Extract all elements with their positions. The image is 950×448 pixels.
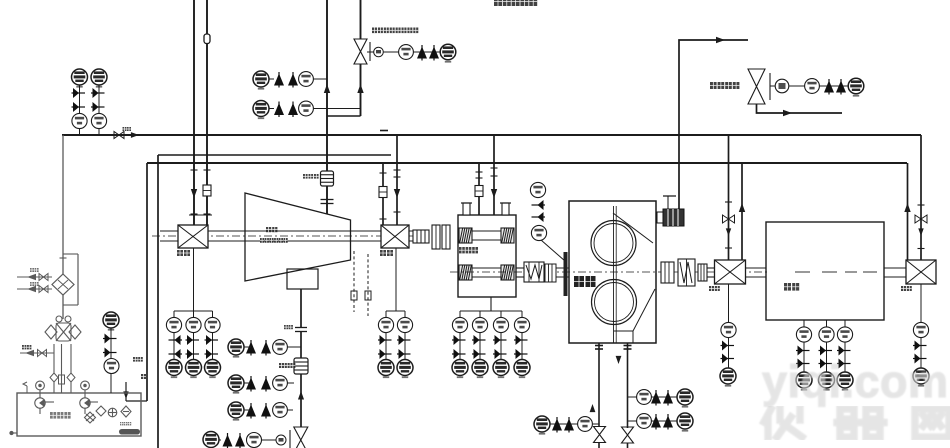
signal line fc row1 xyxy=(628,396,679,398)
coupling fluidcoupling-motor A xyxy=(661,262,674,283)
alarm flag drain lo xyxy=(564,417,574,433)
alarm flag bottom a xyxy=(223,433,233,448)
signal line 0403 PE xyxy=(79,85,81,135)
flow arrow up riser x327 xyxy=(324,84,330,93)
fan vent line upper xyxy=(300,289,302,327)
row connect to drain A xyxy=(592,423,599,425)
instrument 0107 TNT xyxy=(228,339,244,358)
signal line 0402 xyxy=(920,284,922,368)
fluid coupling bevel bottom xyxy=(633,289,655,331)
feed line fan-DE group xyxy=(193,248,195,311)
flow arrow up motor-R drop xyxy=(904,203,910,212)
pipe riser x194 xyxy=(193,0,195,225)
pipe cooler to filter xyxy=(62,295,64,319)
flow arrow down gearbox drop B xyxy=(491,189,497,198)
shaft to motor bearing lower xyxy=(707,276,715,278)
tick mark xyxy=(394,211,401,213)
blow-off valve stem xyxy=(289,430,291,448)
alarm flag fc1 lo xyxy=(663,390,673,406)
label 稀油站 xyxy=(50,412,71,419)
instrument 0303 TE xyxy=(637,414,652,429)
alarm flag 0401 lo xyxy=(721,354,735,364)
flow arrow down drain B xyxy=(616,356,622,364)
tick on riser x207 xyxy=(204,169,211,171)
tick mark xyxy=(204,213,211,215)
signal line 0403 TE xyxy=(803,320,805,372)
instrument 0405 TE xyxy=(837,327,852,342)
alarm flag 0104 VE hi xyxy=(205,335,219,345)
signal line 0405 TE xyxy=(844,320,846,372)
alarm flag probe hi xyxy=(532,200,546,210)
alarm flag 0403 TE lo xyxy=(796,359,810,369)
alarm flag drain hi xyxy=(552,417,562,433)
label XXXXM3 xyxy=(260,238,288,243)
row 0107 link xyxy=(269,78,274,80)
alarm flag 0404 TE hi xyxy=(819,346,833,356)
alarm flag 0101 TE hi xyxy=(378,335,392,345)
alarm flag 0203 TE hi xyxy=(493,335,507,345)
tick mark xyxy=(491,175,498,177)
instrument 0403 TE xyxy=(796,327,811,342)
instrument 0203 TE AST xyxy=(493,360,509,379)
alarm flag 0406 a xyxy=(103,334,117,344)
gearbox 增速机 xyxy=(458,215,516,297)
alarm flag 0101 TE lo xyxy=(378,349,392,359)
instrument 0404 TE xyxy=(819,327,834,342)
cooler bypass top xyxy=(63,253,78,255)
return oil into tank xyxy=(126,400,147,402)
motor shaft R lower xyxy=(884,276,907,278)
signal line 0202 TE xyxy=(479,311,481,360)
alarm flag 0404 PAST b xyxy=(72,102,86,112)
label 回油 on H1 xyxy=(123,127,132,131)
alarm flag 0404 TE lo xyxy=(819,359,833,369)
instrument 0110 PNT xyxy=(228,375,244,394)
instrument 0304 ZNT xyxy=(848,78,864,96)
fan shaft lower line xyxy=(160,240,413,242)
tick above H1 xyxy=(380,130,388,132)
label 液偶 xyxy=(574,276,596,287)
row1 link xyxy=(244,346,251,348)
cooling water line A xyxy=(17,276,52,278)
alarm flag 0305 lo xyxy=(836,79,846,95)
alarm flag row2 b xyxy=(261,376,271,392)
label 排油 xyxy=(22,345,31,349)
output shaft seg upper xyxy=(516,267,524,269)
instrument 0101 TE AST xyxy=(378,360,394,379)
flow arrow right scoop outlet xyxy=(783,110,792,116)
arrow drain oil xyxy=(25,350,34,356)
tick mark xyxy=(380,218,387,220)
alarm flag 0108 a xyxy=(274,102,284,118)
instrument 0204 TE AST xyxy=(514,360,530,379)
cooling water line B xyxy=(17,288,52,290)
label 回 at tank xyxy=(141,374,146,379)
tick mark xyxy=(476,171,483,173)
arrow return oil xyxy=(123,391,128,399)
instrument 0302 XE xyxy=(531,225,546,240)
signal line M to ZE xyxy=(789,85,805,87)
feed line fan-NDE group xyxy=(395,248,397,311)
flow arrow right scoop line xyxy=(716,37,725,43)
label 液偶勺管 xyxy=(710,82,739,89)
label 风机 xyxy=(266,227,277,232)
signal row2 connect xyxy=(287,382,294,384)
orifice gearbox drop A xyxy=(475,186,483,197)
tick mark xyxy=(595,345,603,347)
alarm flag 0201 TE hi xyxy=(452,335,466,345)
valve on cooling water A xyxy=(39,274,48,281)
scoop tube actuator motor xyxy=(657,196,684,226)
tick mark xyxy=(624,348,632,350)
alarm flag 0202 TE hi xyxy=(472,335,486,345)
alarm flag row3 a xyxy=(246,403,256,419)
signal row1 connect xyxy=(287,346,301,348)
tick on riser x194 xyxy=(191,169,198,171)
label 轴承 fan NDE xyxy=(380,250,393,256)
scoop tube valve 液偶勺管 xyxy=(748,69,765,104)
orifice fan bearing drop xyxy=(379,187,387,198)
flow arrow up vent line xyxy=(298,391,304,400)
duplex oil filter xyxy=(45,316,81,341)
alarm flag fc1 hi xyxy=(651,390,661,406)
gearbox top stub A xyxy=(461,203,472,215)
coupling fluidcoupling-motor B xyxy=(678,259,695,286)
anti-surge valve stem bar xyxy=(369,42,371,61)
alarm flag 0203 TE lo xyxy=(493,349,507,359)
instrument M actuator xyxy=(775,79,789,93)
signal line 0404 TE xyxy=(826,320,828,372)
instrument 0204 TE xyxy=(514,317,529,332)
gearbox output journal R xyxy=(501,265,514,280)
scoop valve stem bar xyxy=(769,73,771,100)
signal line 0203 TE xyxy=(500,311,502,360)
label 轴承 fan DE xyxy=(177,250,190,256)
accumulator 蓄能器 xyxy=(294,358,308,374)
coupling guard xyxy=(432,225,450,249)
instrument 0103 LE AST xyxy=(166,360,182,379)
alarm flag 0102 TE lo xyxy=(186,349,200,359)
instrument 0402 TAC xyxy=(91,69,107,88)
tie line between risers xyxy=(189,214,212,216)
gearbox top stub B xyxy=(500,203,511,215)
title 鼓风机系统 xyxy=(494,0,537,6)
valve on motor-L drop xyxy=(723,215,735,223)
label heater xyxy=(120,422,131,425)
row 0108 link xyxy=(269,108,274,110)
instrument E actuator xyxy=(276,435,286,445)
coupling fluidcoupling-motor C xyxy=(698,264,707,281)
alarm flag 0204 TE hi xyxy=(514,335,528,345)
output shaft centerline xyxy=(450,271,770,273)
label muffler 消音器 xyxy=(303,174,319,179)
alarm flag row1 b xyxy=(261,340,271,356)
shaft to fluid coupling lower xyxy=(544,276,569,278)
oil drop motor bearing L B xyxy=(741,163,743,260)
oil heater capsule xyxy=(119,429,140,435)
signal line ZE row xyxy=(819,85,848,87)
branch line fan-DE group xyxy=(174,310,213,312)
drain valve A xyxy=(594,427,606,443)
alarm flag 0403 TE hi xyxy=(796,346,810,356)
tank top-left vent flag xyxy=(23,382,27,393)
oil drop to gearbox A xyxy=(478,163,480,215)
signal line bottom row xyxy=(262,439,276,441)
alarm flag 0305 hi xyxy=(824,79,834,95)
riser x327 lower xyxy=(326,186,328,214)
motor shaft L upper xyxy=(746,267,766,269)
alarm flag row2 a xyxy=(246,376,256,392)
alarm flag 0402 hi xyxy=(913,341,927,351)
flow arrow right on H1 xyxy=(131,132,139,138)
alarm flag 0402 TAC a xyxy=(91,88,105,98)
alarm flag 0204 TE lo xyxy=(514,349,528,359)
jog joining risers xyxy=(327,115,361,117)
label 蓄能器 xyxy=(279,363,295,368)
alarm flag 0404 PAST a xyxy=(72,88,86,98)
signal line 0104 VE xyxy=(212,311,214,360)
gearbox output shaft upper xyxy=(472,267,501,269)
alarm flag 0101 VE hi xyxy=(397,335,411,345)
fan casing 风机 xyxy=(245,193,351,281)
bottom row link xyxy=(219,439,221,441)
gearbox input journal R xyxy=(501,228,514,243)
oil station tank 稀油站 xyxy=(17,393,141,436)
instrument 0202 TE xyxy=(472,317,487,332)
motor centerline dash 2 xyxy=(822,271,837,273)
label S4 B xyxy=(30,282,39,286)
alarm flag fc2 lo xyxy=(663,414,673,430)
instrument 0104 VE AST xyxy=(205,360,221,379)
instrument 0403 TE AST xyxy=(796,372,812,391)
instrument 0405 TE AST xyxy=(837,372,853,391)
oil cooler diamond xyxy=(52,274,74,295)
coupling spacer gearbox side xyxy=(545,264,556,282)
alarm flag 0103 LE hi xyxy=(169,335,183,345)
instrument IE xyxy=(374,47,384,57)
fluid coupling runner upper xyxy=(591,221,636,266)
instrument 0307 TE xyxy=(578,417,593,432)
instrument 0102 TE xyxy=(186,317,201,332)
alarm flag 0107 b xyxy=(288,72,298,88)
alarm flag 0202 TE lo xyxy=(472,349,486,359)
fan shaft centerline xyxy=(152,235,425,237)
element on pipe B xyxy=(59,375,65,384)
oil pipe from H1 down xyxy=(62,135,64,274)
label 回油 xyxy=(133,357,143,362)
output shaft seg lower xyxy=(516,276,524,278)
instrument 0102 PNT xyxy=(253,101,269,120)
pipe filter to tank B xyxy=(61,344,63,393)
antisurge pipe lower xyxy=(360,64,362,116)
row2 link xyxy=(244,382,251,384)
alarm flag bottom b xyxy=(235,433,245,448)
flow arrow up motor-L drop xyxy=(739,203,745,212)
instrument 0404 TE AST xyxy=(819,372,835,391)
shaft to motor bearing upper xyxy=(707,267,715,269)
return oil line 回油 xyxy=(146,163,148,401)
pipe riser x207 xyxy=(206,0,208,225)
signal line 0403 xyxy=(110,328,112,393)
scoop line outlet xyxy=(757,104,843,113)
tick mark xyxy=(60,257,67,259)
probe line B xyxy=(367,254,369,316)
instrument 0403 PE xyxy=(72,113,87,128)
muffler xyxy=(321,171,334,186)
motor 电机 xyxy=(766,222,884,320)
instrument 0401 TE xyxy=(91,113,106,128)
label S4 A xyxy=(30,268,39,272)
bearing fan NDE 轴承 xyxy=(381,225,409,248)
tick mark xyxy=(491,167,498,169)
tank internals xyxy=(85,406,132,423)
instrument 0110 PE xyxy=(273,403,288,418)
alarm flag 0405 TE hi xyxy=(837,346,851,356)
oil drop motor bearing R A xyxy=(907,163,909,260)
fluid coupling 液偶 casing xyxy=(569,201,656,343)
oil drop fan bearing R B xyxy=(396,135,398,225)
bearing fan DE 轴承 xyxy=(178,225,208,248)
orifice on riser x207 xyxy=(203,185,211,196)
tick mark xyxy=(595,348,603,350)
alarm flag 0103 LE lo xyxy=(169,349,183,359)
instrument 0114 ZNT xyxy=(440,44,456,62)
instrument 0107 TE xyxy=(299,72,314,87)
blow-off valve xyxy=(294,427,308,448)
flow arrow down riser x194 xyxy=(191,189,197,198)
tank left connection xyxy=(10,431,17,434)
fluid coupling inner line 2 xyxy=(615,206,617,343)
cooler internal line B xyxy=(58,280,68,289)
gearbox output journal L xyxy=(459,265,472,280)
watermark 仪器网 xyxy=(764,409,949,437)
tick mark xyxy=(725,247,732,249)
alarm flag 0101 VE lo xyxy=(397,349,411,359)
coupling gearbox-fluidcoupling xyxy=(524,262,544,282)
cooler bypass pipe xyxy=(77,254,79,305)
instrument 0102 TE AST xyxy=(186,360,202,379)
instrument 0108 PE xyxy=(299,101,314,116)
alarm flag probe lo xyxy=(532,212,546,222)
return oil drop xyxy=(125,382,127,401)
mini diamond on pipe A xyxy=(50,373,58,382)
instrument 0101 VE AST xyxy=(397,360,413,379)
instrument 0203 TE xyxy=(493,317,508,332)
alarm flag 0402 lo xyxy=(913,354,927,364)
instrument 0406 TNT xyxy=(103,312,119,331)
flow arrow down fan bearing drop xyxy=(394,189,400,198)
instrument 0302 PE xyxy=(637,390,652,405)
gearbox instrument feed xyxy=(490,297,492,311)
alarm flag row3 b xyxy=(261,403,271,419)
alarm flag fc2 hi xyxy=(651,414,661,430)
signal line valve to M xyxy=(770,85,775,87)
flow arrow up antisurge pipe xyxy=(357,84,363,93)
label expansion joint xyxy=(284,325,293,329)
tick mark xyxy=(394,176,401,178)
valve on motor-R drop xyxy=(915,215,927,223)
instrument 0401 TAST xyxy=(720,368,736,387)
arrow cooling water A xyxy=(27,274,36,280)
label 轴承 motor NDE xyxy=(901,286,912,291)
instrument 0303 PAST xyxy=(677,389,693,408)
alarm flag 0102 TE hi xyxy=(186,335,200,345)
cooler internal line A xyxy=(58,280,68,289)
oil pump A xyxy=(35,381,54,414)
instrument 0103 LE xyxy=(166,317,181,332)
alarm flag 0405 TE lo xyxy=(837,359,851,369)
valve on drain oil line xyxy=(38,350,47,357)
instrument 0306 TAST xyxy=(534,416,550,435)
pipe filter to tank C xyxy=(70,344,72,393)
instrument 0305 TAST xyxy=(677,413,693,432)
mini valve on H1 xyxy=(114,132,124,139)
alarm flag 0401 hi xyxy=(721,341,735,351)
instrument 0104 VE xyxy=(205,317,220,332)
motor centerline dash 4 xyxy=(863,271,877,273)
antisurge pipe upper xyxy=(360,0,362,39)
oil drop motor bearing L A xyxy=(728,135,730,260)
fluid coupling input flange bar xyxy=(564,252,568,296)
alarm flag 0104 VE lo xyxy=(205,349,219,359)
alarm flag ZE lo xyxy=(429,45,439,61)
motor centerline dash 1 xyxy=(795,271,810,273)
instrument 0404 PAST xyxy=(72,69,88,88)
fluid coupling sump right wall xyxy=(632,331,634,343)
signal line 0201 TE xyxy=(459,311,461,360)
motor shaft L lower xyxy=(746,276,766,278)
fan vent line lower xyxy=(300,332,302,427)
signal line 0103 LE xyxy=(173,311,175,360)
oil drop to gearbox B xyxy=(493,135,495,215)
instrument 0401 TE xyxy=(721,322,736,337)
instrument 0101 TNT xyxy=(253,71,269,90)
signal line anti-surge row xyxy=(367,51,441,53)
signal line drain row xyxy=(550,423,592,425)
union on riser x207 xyxy=(204,34,210,44)
tick mark xyxy=(476,177,483,179)
instrument 0202 TE AST xyxy=(472,360,488,379)
instrument 0201 TE AST xyxy=(452,360,468,379)
expansion joint under muffler xyxy=(321,200,334,204)
cooler bypass bottom xyxy=(63,304,78,306)
instrument 0402 TAST xyxy=(913,368,929,387)
oil drop fan bearing R A xyxy=(382,163,384,226)
instrument 0301 XE xyxy=(530,182,545,197)
fluid coupling drain B xyxy=(627,343,629,428)
branch line fan-NDE group xyxy=(386,310,405,312)
label 增速机 xyxy=(459,247,478,253)
alarm flag row1 a xyxy=(246,340,256,356)
inner header H3 xyxy=(158,154,391,156)
instrument 0403 TE xyxy=(104,359,119,374)
flow arrow up drain A xyxy=(590,404,596,412)
shaft to fluid coupling upper xyxy=(544,267,569,269)
scoop tube control line xyxy=(679,40,748,210)
instrument 0111 FNT xyxy=(228,402,244,421)
oil supply header H1 xyxy=(62,134,921,136)
alarm flag 0406 b xyxy=(103,348,117,358)
drop inner header left / standpipe xyxy=(157,155,159,448)
tick mark xyxy=(394,169,401,171)
bearing motor DE 轴承 xyxy=(715,260,746,284)
alarm flag 0402 TAC b xyxy=(91,102,105,112)
instrument 0402 TE xyxy=(913,322,928,337)
instrument 0201 TE xyxy=(452,317,467,332)
instrument 0108 TE xyxy=(273,340,288,355)
coupling fan-gearbox xyxy=(413,230,429,243)
instrument 0113 ZE xyxy=(247,433,262,448)
